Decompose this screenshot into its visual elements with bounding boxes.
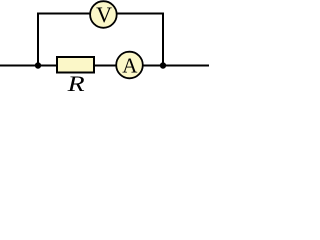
wire: bottom wire between resistor and ammeter <box>94 65 117 67</box>
voltmeter U-V <box>90 1 117 28</box>
junction node left <box>35 62 41 68</box>
ammeter U-A <box>116 52 143 79</box>
wire: top wire right of voltmeter <box>116 13 164 15</box>
wire: bottom wire right segment <box>142 65 209 67</box>
wire: left vertical branch wire <box>37 13 39 66</box>
wire: main bottom wire left segment <box>0 65 57 67</box>
svg-text:A: A <box>122 53 138 77</box>
wire: right vertical branch wire <box>162 13 164 66</box>
resistor R <box>57 57 94 73</box>
svg-text:V: V <box>96 2 112 27</box>
wire: top wire left of voltmeter <box>37 13 91 15</box>
svg-text:R: R <box>66 71 85 95</box>
junction node right <box>160 62 166 68</box>
